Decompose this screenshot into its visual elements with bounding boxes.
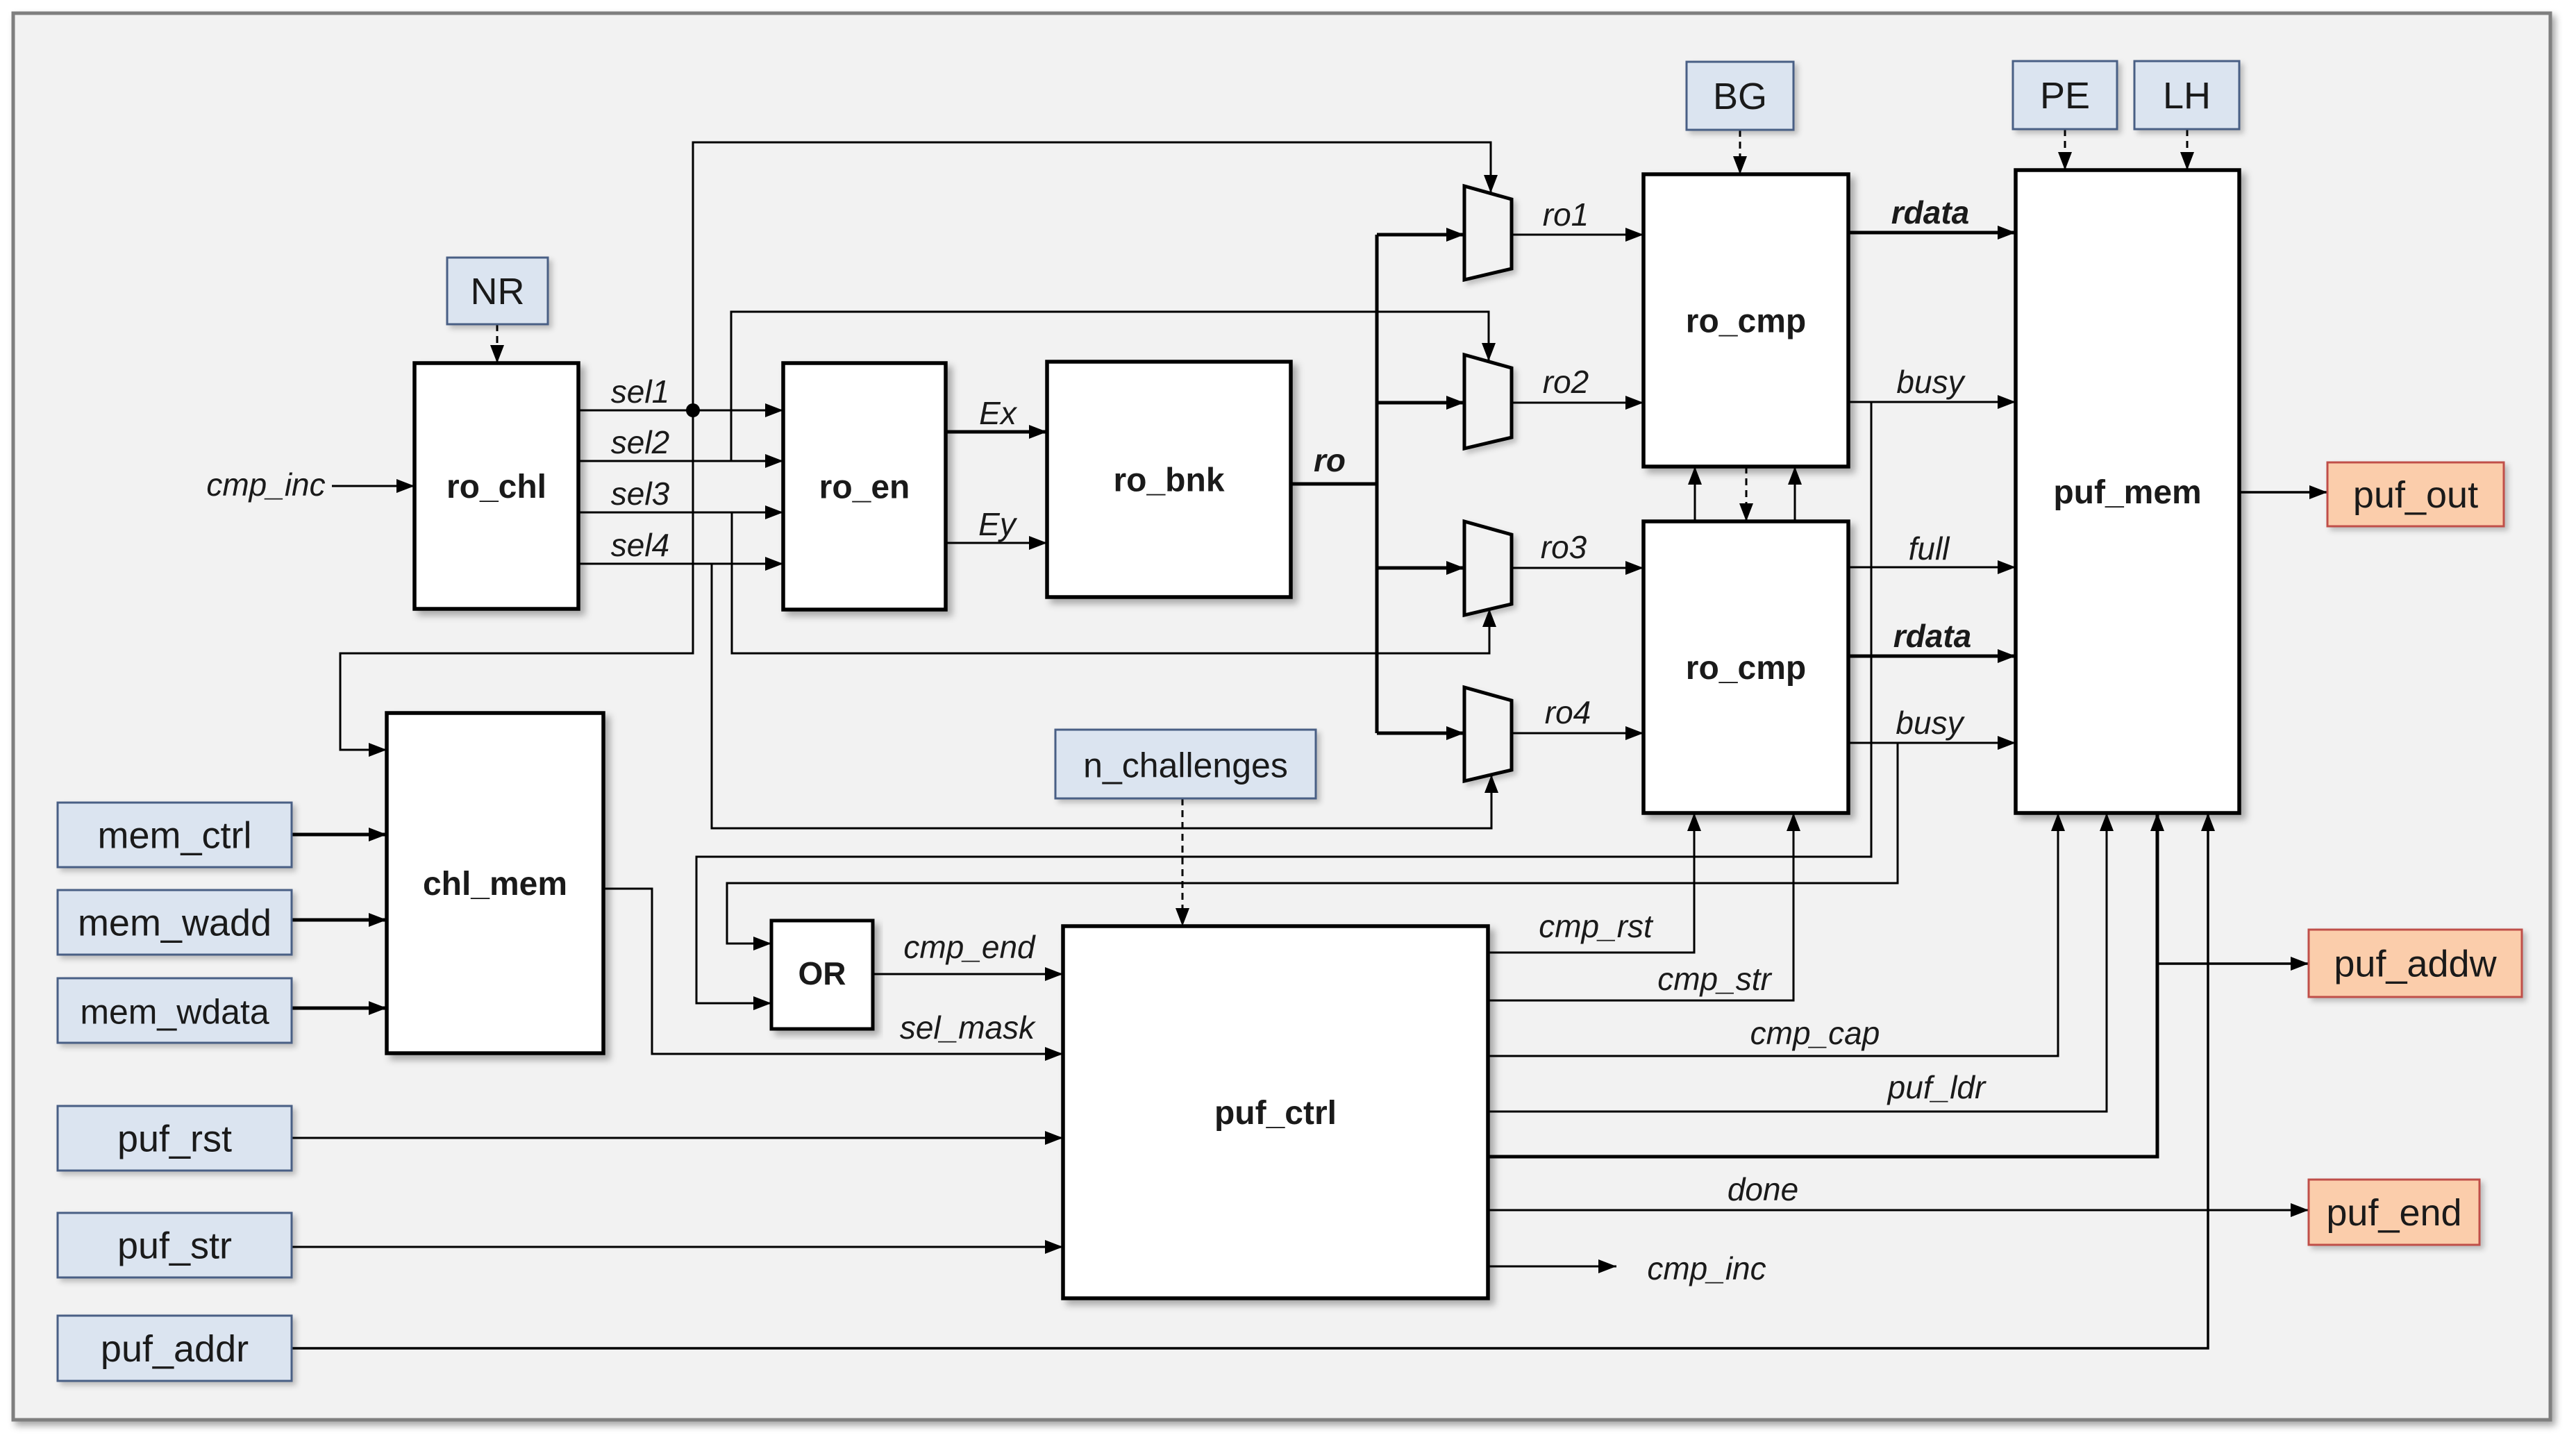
svg-text:ro: ro <box>1314 442 1346 478</box>
svg-text:done: done <box>1728 1171 1798 1207</box>
svg-text:Ey: Ey <box>978 506 1018 542</box>
svg-text:busy: busy <box>1896 364 1966 400</box>
svg-text:ro4: ro4 <box>1545 694 1591 730</box>
svg-text:puf_end: puf_end <box>2326 1192 2461 1234</box>
svg-text:cmp_inc: cmp_inc <box>206 467 325 503</box>
svg-text:cmp_inc: cmp_inc <box>1647 1250 1766 1286</box>
svg-text:sel3: sel3 <box>611 476 670 512</box>
svg-text:ro3: ro3 <box>1541 529 1587 565</box>
svg-text:sel4: sel4 <box>611 527 669 563</box>
svg-text:full: full <box>1909 530 1951 567</box>
svg-text:mem_ctrl: mem_ctrl <box>97 815 251 857</box>
svg-text:ro_cmp: ro_cmp <box>1686 303 1806 340</box>
svg-text:ro_cmp: ro_cmp <box>1686 650 1806 687</box>
svg-text:sel1: sel1 <box>611 374 669 410</box>
svg-text:cmp_cap: cmp_cap <box>1750 1015 1880 1051</box>
svg-text:PE: PE <box>2040 75 2090 117</box>
svg-text:puf_str: puf_str <box>117 1225 232 1267</box>
svg-text:n_challenges: n_challenges <box>1083 746 1288 785</box>
svg-text:BG: BG <box>1713 76 1767 117</box>
svg-text:cmp_str: cmp_str <box>1657 961 1772 997</box>
svg-text:cmp_end: cmp_end <box>903 929 1036 965</box>
svg-text:puf_ctrl: puf_ctrl <box>1214 1095 1337 1132</box>
svg-text:puf_ldr: puf_ldr <box>1887 1069 1987 1105</box>
svg-text:Ex: Ex <box>979 395 1018 431</box>
svg-text:ro_en: ro_en <box>819 469 910 506</box>
svg-text:sel2: sel2 <box>611 424 669 460</box>
svg-text:OR: OR <box>798 955 846 991</box>
svg-text:rdata: rdata <box>1891 194 1969 230</box>
svg-text:mem_wdata: mem_wdata <box>80 993 269 1032</box>
svg-text:rdata: rdata <box>1893 618 1971 654</box>
svg-text:busy: busy <box>1896 705 1965 741</box>
svg-text:ro1: ro1 <box>1543 196 1589 233</box>
svg-text:puf_mem: puf_mem <box>2053 474 2201 511</box>
svg-text:LH: LH <box>2163 75 2211 117</box>
svg-text:puf_addr: puf_addr <box>101 1328 249 1370</box>
svg-text:sel_mask: sel_mask <box>900 1009 1036 1046</box>
svg-text:ro2: ro2 <box>1543 364 1589 400</box>
svg-text:puf_addw: puf_addw <box>2334 944 2497 985</box>
svg-text:ro_chl: ro_chl <box>446 469 546 505</box>
svg-text:puf_rst: puf_rst <box>117 1118 232 1160</box>
svg-text:NR: NR <box>471 271 525 312</box>
svg-text:puf_out: puf_out <box>2353 474 2478 516</box>
svg-text:cmp_rst: cmp_rst <box>1539 908 1654 944</box>
svg-text:mem_wadd: mem_wadd <box>78 903 271 944</box>
svg-text:ro_bnk: ro_bnk <box>1113 462 1224 499</box>
svg-text:chl_mem: chl_mem <box>423 866 567 903</box>
